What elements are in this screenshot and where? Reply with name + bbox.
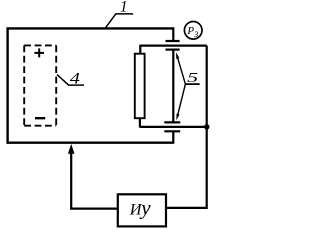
svg-text:1: 1	[120, 0, 128, 16]
svg-text:5: 5	[187, 71, 198, 86]
svg-text:y: y	[139, 195, 151, 219]
svg-text:4: 4	[70, 71, 80, 88]
svg-text:3: 3	[193, 29, 198, 39]
